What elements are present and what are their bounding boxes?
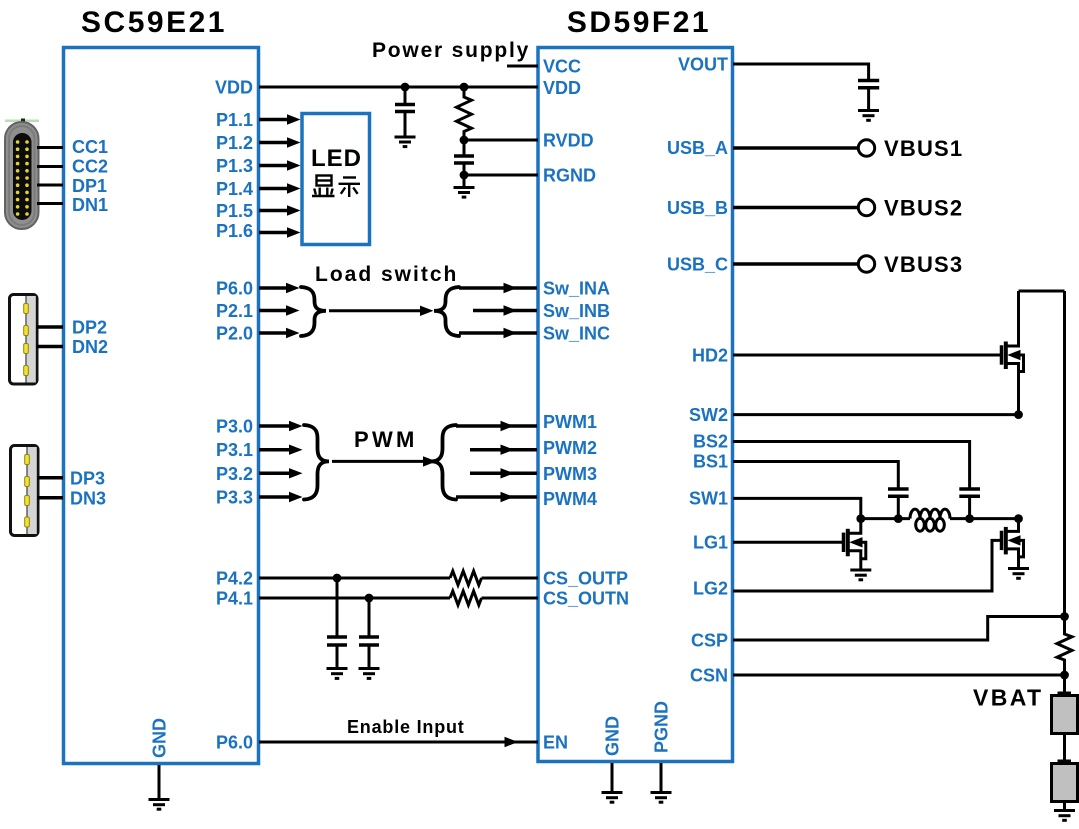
svg-text:CSN: CSN <box>690 666 728 686</box>
svg-text:PWM4: PWM4 <box>543 489 597 509</box>
svg-text:P4.1: P4.1 <box>216 589 253 609</box>
svg-text:P3.3: P3.3 <box>216 488 253 508</box>
ground under C4 <box>359 669 380 679</box>
ground under Q2 <box>850 570 871 580</box>
capacitor C3 <box>327 578 347 668</box>
wire CC2 <box>37 165 63 168</box>
wire VDD rail <box>259 86 538 89</box>
svg-text:BS2: BS2 <box>693 432 728 452</box>
transistor Q1 (HD2 switch) <box>1002 291 1024 415</box>
wire load switch bus arrow <box>329 306 434 316</box>
svg-text:VDD: VDD <box>543 78 581 98</box>
wire DP2 <box>37 325 64 329</box>
svg-text:P1.2: P1.2 <box>216 133 253 153</box>
terminal VBUS2 circle <box>858 199 874 215</box>
wire between cells <box>1063 734 1066 761</box>
svg-text:VCC: VCC <box>543 57 581 77</box>
terminal VBUS3 circle <box>858 256 874 272</box>
svg-text:VBUS2: VBUS2 <box>884 196 963 221</box>
capacitor C7 (BS1) <box>888 489 909 519</box>
wire P1.3 arrow <box>259 160 301 170</box>
svg-text:VOUT: VOUT <box>678 55 728 75</box>
wire DN3 <box>38 496 64 500</box>
svg-text:PWM2: PWM2 <box>543 438 597 458</box>
ground under Q3 <box>1008 569 1029 579</box>
wire P2.0 arrow <box>259 328 300 338</box>
wire PGND stem <box>660 763 663 792</box>
wire BS1 <box>733 462 898 490</box>
node CSP junction <box>1060 612 1069 621</box>
svg-text:USB_A: USB_A <box>667 138 728 158</box>
wire DN1 <box>37 202 63 205</box>
node P4.1 junction <box>365 594 374 603</box>
wire GND stem (U2) <box>611 763 614 792</box>
wire P1.1 arrow <box>259 114 301 124</box>
brace right-facing (load switch left) <box>301 287 326 336</box>
wire USB_B <box>733 206 858 210</box>
battery cell BT1 <box>1052 692 1078 734</box>
brace right-facing (PWM left) <box>304 425 329 500</box>
transistor Q3 (LG2) <box>1002 519 1024 568</box>
capacitor C1 <box>395 87 415 137</box>
node CSN junction <box>1060 671 1069 680</box>
svg-text:P3.2: P3.2 <box>216 464 253 484</box>
svg-text:LG2: LG2 <box>693 579 728 599</box>
svg-text:CC1: CC1 <box>72 137 108 157</box>
svg-text:P4.2: P4.2 <box>216 569 253 589</box>
svg-text:GND: GND <box>603 716 623 756</box>
wire battery to ground <box>1063 802 1066 811</box>
svg-text:P1.5: P1.5 <box>216 201 253 221</box>
wire P1.2 arrow <box>259 137 301 147</box>
wire P2.1 arrow <box>259 305 300 315</box>
svg-text:Load switch: Load switch <box>315 263 458 286</box>
svg-text:DN3: DN3 <box>70 489 106 509</box>
wire USB_A <box>733 146 858 150</box>
svg-text:P1.3: P1.3 <box>216 156 253 176</box>
wire P3.3 arrow <box>259 492 303 502</box>
wire P3.1 arrow <box>259 445 303 455</box>
wire P6.0 arrow <box>259 283 300 293</box>
ground under battery <box>1054 811 1075 821</box>
wire PWM2 arrow <box>470 445 537 455</box>
svg-text:EN: EN <box>543 733 568 753</box>
svg-text:P1.6: P1.6 <box>216 221 253 241</box>
svg-text:USB_B: USB_B <box>667 198 728 218</box>
svg-text:PWM1: PWM1 <box>543 412 597 432</box>
wire P6.0 to EN arrow <box>259 737 538 747</box>
wire P3.0 arrow <box>259 421 303 431</box>
svg-text:RVDD: RVDD <box>543 131 594 151</box>
brace left-facing (PWM right) <box>431 425 456 500</box>
svg-text:LG1: LG1 <box>693 533 728 553</box>
node VDD-R1 junction <box>460 83 469 92</box>
inductor L1 <box>910 509 950 531</box>
USB-A connector J2 <box>10 295 38 385</box>
wire LG2 to Q3 gate <box>733 540 1002 591</box>
wire P1.5 arrow <box>259 205 301 215</box>
svg-text:SW1: SW1 <box>689 489 728 509</box>
node SW2-Q3 junction <box>1014 514 1023 523</box>
label 显示 (drawn glyphs) <box>312 176 360 198</box>
ground under C1 <box>395 137 416 147</box>
ground U2 GND <box>602 793 623 803</box>
svg-text:DP2: DP2 <box>72 318 107 338</box>
svg-text:PWM: PWM <box>354 427 418 452</box>
capacitor C4 <box>359 598 379 668</box>
wire P3.2 arrow <box>259 468 303 478</box>
IC U1 SC59E21 body <box>64 48 259 764</box>
svg-text:P1.4: P1.4 <box>216 179 253 199</box>
svg-text:HD2: HD2 <box>692 346 728 366</box>
svg-text:RGND: RGND <box>543 166 596 186</box>
svg-text:VBAT: VBAT <box>973 685 1044 711</box>
wire VOUT <box>733 64 869 80</box>
USB-A connector J3 <box>11 446 39 536</box>
wire P4.1 to resistor <box>259 597 450 600</box>
wire CSP <box>733 617 1065 641</box>
svg-text:CS_OUTP: CS_OUTP <box>543 569 628 589</box>
svg-text:SW2: SW2 <box>689 405 728 425</box>
svg-text:DP3: DP3 <box>70 469 105 489</box>
wire Sw_INC arrow <box>459 328 537 338</box>
wire GND stem (U1) <box>158 765 161 799</box>
svg-text:USB_C: USB_C <box>667 255 728 275</box>
wire Sw_INB arrow <box>473 305 537 315</box>
ground U1 GND <box>149 800 170 810</box>
resistor R3 (CS_OUTN) <box>450 591 482 605</box>
wire resistor to CS_OUTN <box>482 597 539 600</box>
node SW2 junction <box>1014 410 1023 419</box>
wire SW1 node left <box>861 517 910 520</box>
node BS2 cap junction <box>965 514 974 523</box>
wire CC1 <box>37 146 63 149</box>
capacitor C5 (VOUT) <box>858 81 879 111</box>
svg-text:Sw_INA: Sw_INA <box>543 279 610 299</box>
wire VCC stub <box>507 65 538 68</box>
svg-text:CS_OUTN: CS_OUTN <box>543 589 629 609</box>
ground PGND <box>651 793 672 803</box>
svg-text:Enable Input: Enable Input <box>347 717 465 737</box>
wire PWM1 arrow <box>456 421 537 431</box>
LED display block <box>302 114 370 245</box>
wire right rail <box>1063 291 1066 617</box>
wire USB_C <box>733 262 858 266</box>
wire CSN to battery <box>1063 675 1066 692</box>
transistor Q2 (LG1) <box>844 519 866 570</box>
node BS1 cap junction <box>894 514 903 523</box>
wire PWM3 arrow <box>470 468 537 478</box>
wire P1.4 arrow <box>259 183 301 193</box>
terminal VBUS1 circle <box>858 140 874 156</box>
ground under C2 <box>454 188 475 198</box>
svg-text:CC2: CC2 <box>72 157 108 177</box>
wire SW2 <box>733 413 1019 416</box>
wire RVDD <box>464 139 538 142</box>
wire HD2 to Q1 gate <box>733 354 1002 357</box>
USB-C connector J1 <box>5 119 39 230</box>
node VDD-C1 junction <box>401 83 410 92</box>
wire LG1 to Q2 gate <box>733 541 844 544</box>
wire PWM4 arrow <box>456 492 537 502</box>
node RVDD junction <box>460 136 469 145</box>
wire Sw_INA arrow <box>459 283 537 293</box>
svg-text:P2.0: P2.0 <box>216 324 253 344</box>
svg-text:DP1: DP1 <box>72 176 107 196</box>
wire BS2 <box>733 442 970 490</box>
wire P1.6 arrow <box>259 227 301 237</box>
IC U2 SD59F21 body <box>538 48 733 762</box>
svg-text:P3.0: P3.0 <box>216 417 253 437</box>
ground under C5 <box>858 111 879 121</box>
wire CSN <box>733 674 1065 677</box>
wire P4.2 to resistor <box>259 577 450 580</box>
svg-text:BS1: BS1 <box>693 452 728 472</box>
svg-text:DN2: DN2 <box>72 337 108 357</box>
node SW1-Q2 junction <box>856 514 865 523</box>
svg-text:SC59E21: SC59E21 <box>81 6 227 39</box>
svg-text:VDD: VDD <box>215 78 253 98</box>
node RGND junction <box>460 171 469 180</box>
resistor R4 (sense) <box>1057 617 1072 676</box>
wire DP3 <box>38 476 64 480</box>
wire DN2 <box>37 345 64 349</box>
svg-text:GND: GND <box>150 718 170 758</box>
svg-text:PWM3: PWM3 <box>543 464 597 484</box>
resistor R1 <box>457 87 472 140</box>
wire resistor to CS_OUTP <box>482 577 539 580</box>
brace left-facing (load switch right) <box>434 287 459 336</box>
wire top rail <box>1019 290 1065 293</box>
capacitor C6 (BS2) <box>959 489 980 519</box>
svg-text:DN1: DN1 <box>72 195 108 215</box>
wire RGND <box>464 174 538 177</box>
svg-text:P3.1: P3.1 <box>216 440 253 460</box>
svg-text:LED: LED <box>311 145 362 172</box>
node P4.2 junction <box>333 574 342 583</box>
wire PWM bus arrow <box>332 456 437 466</box>
svg-text:P6.0: P6.0 <box>216 279 253 299</box>
battery cell BT2 <box>1052 760 1078 802</box>
svg-text:Sw_INC: Sw_INC <box>543 324 610 344</box>
svg-text:CSP: CSP <box>691 631 728 651</box>
svg-text:Power supply: Power supply <box>372 39 530 62</box>
svg-text:SD59F21: SD59F21 <box>567 6 711 39</box>
svg-text:PGND: PGND <box>652 701 672 753</box>
svg-text:Sw_INB: Sw_INB <box>543 301 610 321</box>
capacitor C2 <box>454 140 474 175</box>
svg-text:P1.1: P1.1 <box>216 110 253 130</box>
wire SW1 node right <box>950 517 1019 520</box>
svg-text:VBUS3: VBUS3 <box>884 252 963 277</box>
resistor R2 (CS_OUTP) <box>450 571 482 585</box>
ground under C3 <box>327 669 348 679</box>
svg-text:VBUS1: VBUS1 <box>884 136 963 161</box>
wire DP1 <box>37 184 63 187</box>
svg-text:P2.1: P2.1 <box>216 301 253 321</box>
wire SW1 <box>733 498 861 518</box>
wire RGND to ground <box>463 175 466 187</box>
svg-text:P6.0: P6.0 <box>216 733 253 753</box>
